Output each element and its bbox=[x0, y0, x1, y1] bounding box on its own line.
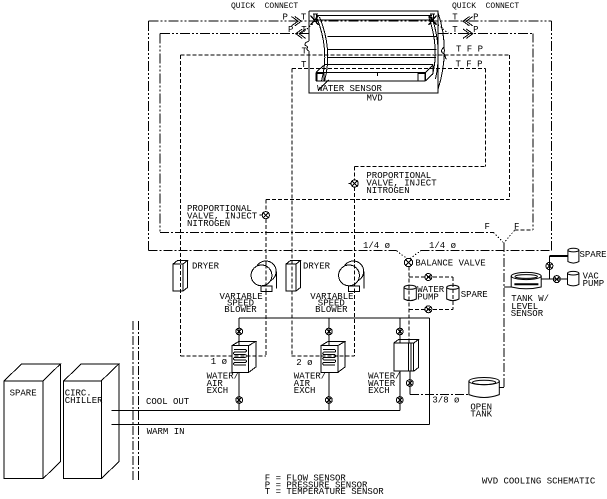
MVD right outer break squiggle bbox=[442, 47, 447, 59]
svg-text:NITROGEN: NITROGEN bbox=[366, 186, 409, 196]
label VARIABLE SPEED BLOWER 2 bbox=[310, 292, 353, 315]
wire left chilled duct pair bbox=[133, 321, 139, 482]
label WATER/WATER EXCH bbox=[368, 372, 400, 397]
svg-text:DRYER: DRYER bbox=[192, 262, 220, 272]
svg-text:TANK: TANK bbox=[470, 409, 492, 419]
wire air duct 2 dashed bbox=[292, 355, 355, 357]
svg-text:F: F bbox=[485, 222, 490, 232]
svg-text:NITROGEN: NITROGEN bbox=[187, 219, 230, 229]
blower 2 bbox=[339, 261, 364, 292]
svg-text:QUICK CONNECT: QUICK CONNECT bbox=[231, 2, 298, 11]
proportional valve V1 bbox=[260, 212, 270, 219]
wire pump loop right dashed bbox=[452, 277, 454, 309]
MVD top tube bbox=[313, 14, 435, 22]
MVD water sensor tray bbox=[316, 65, 433, 81]
wire spare branch horizontal (thick) bbox=[549, 255, 568, 257]
label VAC PUMP bbox=[583, 272, 605, 289]
svg-text:SPARE: SPARE bbox=[10, 389, 37, 399]
valve branch3 top bbox=[396, 328, 403, 335]
heat exchanger water/air 1 bbox=[232, 341, 256, 372]
svg-text:P: P bbox=[473, 25, 478, 35]
svg-text:1 ø: 1 ø bbox=[211, 357, 227, 367]
valve branch2 top bbox=[326, 328, 333, 335]
svg-text:CHILLER: CHILLER bbox=[65, 396, 103, 406]
label OPEN TANK bbox=[470, 402, 492, 419]
MVD left inner end arcs bbox=[317, 17, 328, 81]
wire COOL OUT pipe bbox=[112, 410, 400, 412]
svg-text:P: P bbox=[283, 13, 288, 23]
label VARIABLE SPEED BLOWER 1 bbox=[220, 292, 263, 315]
wire dotted diagonal line2-right into tube bbox=[436, 23, 449, 34]
valve spare branch bbox=[546, 263, 553, 270]
spare cylinder top right bbox=[568, 248, 579, 263]
proportional valve V2 bbox=[348, 180, 358, 187]
MVD right outer end arc bbox=[438, 13, 444, 89]
valve branch1 top bbox=[236, 328, 243, 335]
wire tank stub to funnel line bbox=[504, 286, 511, 288]
arrow chevron right line2 right bbox=[463, 29, 473, 38]
wire WARM IN pipe bbox=[112, 424, 430, 426]
svg-text:BLOWER: BLOWER bbox=[315, 305, 348, 315]
dryer 1 bbox=[173, 261, 188, 292]
svg-text:WVD COOLING SCHEMATIC: WVD COOLING SCHEMATIC bbox=[482, 476, 596, 486]
svg-text:T: T bbox=[452, 13, 458, 23]
wire long center line upper (to flow funnel) bbox=[160, 231, 494, 233]
water pump cylinder bbox=[404, 285, 416, 300]
label WATER/AIR EXCH 1 bbox=[207, 372, 239, 397]
wire warm water header (loop top) bbox=[239, 317, 429, 319]
MVD middle shell lines bbox=[327, 37, 437, 58]
wire funnel drop to open tank bbox=[503, 243, 505, 387]
legend F P T bbox=[265, 473, 384, 497]
balance valve bbox=[404, 258, 412, 266]
wire long center line lower (1/4 supply) bbox=[149, 250, 552, 252]
svg-text:1/4 ø: 1/4 ø bbox=[429, 241, 456, 251]
wire dashed header to proportional valve 2 bbox=[355, 166, 486, 168]
label WATER SENSOR with leader bbox=[317, 80, 382, 94]
wire spare branch vertical bbox=[548, 256, 550, 279]
wire riser valve V1 down through blower 1 bbox=[265, 219, 267, 356]
svg-text:EXCH: EXCH bbox=[368, 386, 390, 396]
svg-text:T: T bbox=[301, 13, 307, 23]
svg-text:SPARE: SPARE bbox=[580, 250, 607, 260]
svg-text:P: P bbox=[288, 25, 293, 35]
label TANK W/ LEVEL SENSOR bbox=[511, 294, 549, 319]
wire riser valve V2 down through blower 2 bbox=[354, 187, 356, 356]
wire V notch to balance valve bbox=[397, 251, 421, 259]
label WATER/AIR EXCH 2 bbox=[294, 372, 326, 397]
arrow chevron left line2 left bbox=[296, 29, 306, 38]
svg-text:P: P bbox=[473, 13, 478, 23]
valve vac pump bbox=[553, 276, 560, 283]
wire open tank inlet stub bbox=[499, 386, 504, 388]
valve branch3 bottom bbox=[396, 397, 403, 404]
wire riser valve V1 up bbox=[265, 199, 267, 211]
wire quick-connect line 1 top (P supply, phantom) bbox=[149, 21, 552, 251]
wire exchanger drain drop bbox=[409, 371, 411, 394]
svg-text:DRYER: DRYER bbox=[303, 262, 331, 272]
vac pump cylinder bbox=[568, 271, 579, 285]
spare chiller box bbox=[4, 364, 60, 479]
svg-text:T F P: T F P bbox=[456, 45, 483, 55]
svg-text:1/4 ø: 1/4 ø bbox=[363, 241, 390, 251]
dryer 2 bbox=[286, 261, 301, 292]
svg-text:BALANCE VALVE: BALANCE VALVE bbox=[415, 259, 485, 269]
wire quick-connect line 4 (T F P, dashed) bbox=[292, 69, 485, 357]
wire branch 2 vertical bbox=[328, 318, 330, 411]
svg-text:EXCH: EXCH bbox=[294, 386, 316, 396]
label PROPORTIONAL VALVE INJECT NITROGEN right bbox=[366, 171, 437, 196]
svg-text:T: T bbox=[452, 25, 458, 35]
blower 1 bbox=[251, 261, 276, 292]
svg-text:EXCH: EXCH bbox=[207, 386, 229, 396]
wire warm in riser right bbox=[429, 318, 431, 425]
wire tank to vac pump bbox=[541, 278, 567, 280]
wire air duct 1 dashed bbox=[180, 355, 266, 357]
spare pump cylinder bbox=[447, 285, 459, 300]
svg-text:SPARE: SPARE bbox=[461, 290, 488, 300]
heat exchanger water/air 2 bbox=[321, 341, 345, 372]
wire dotted diagonal line2-left into tube bbox=[302, 23, 314, 34]
MVD right tube-end crossing mark bbox=[429, 16, 437, 26]
valve branch2 bottom bbox=[326, 397, 333, 404]
label PROPORTIONAL VALVE INJECT NITROGEN left bbox=[187, 204, 258, 229]
wire branch 1 vertical bbox=[238, 318, 240, 411]
wire pump loop top dashed bbox=[409, 276, 453, 278]
valve branch1 bottom bbox=[236, 397, 243, 404]
wire balance valve drop (dashed) bbox=[408, 267, 410, 343]
wire flow funnel diagonals bbox=[494, 230, 515, 243]
MVD right inner end arcs bbox=[429, 17, 438, 79]
open tank bbox=[469, 378, 499, 398]
valve exchanger drain bbox=[406, 380, 413, 387]
wire pump loop bottom dashed bbox=[409, 308, 453, 310]
svg-text:SENSOR: SENSOR bbox=[511, 309, 544, 319]
svg-text:PUMP: PUMP bbox=[583, 279, 605, 289]
svg-text:2 ø: 2 ø bbox=[296, 358, 312, 368]
arrow chevron left line1 right bbox=[463, 17, 473, 26]
svg-text:BLOWER: BLOWER bbox=[224, 305, 257, 315]
wire quick-connect line 2 (P return, phantom) bbox=[160, 34, 533, 233]
wire dashed header to proportional valve 1 bbox=[266, 198, 510, 200]
wire quick-connect line 3 (T F P, dashed) bbox=[180, 55, 509, 356]
MVD vessel outer box bbox=[305, 11, 438, 93]
wire flow funnel right stub bbox=[515, 229, 534, 231]
svg-text:WARM IN: WARM IN bbox=[147, 427, 185, 437]
MVD left tube-end crossing mark bbox=[311, 16, 319, 26]
tank w/ level sensor bbox=[511, 272, 541, 288]
svg-text:T = TEMPERATURE SENSOR: T = TEMPERATURE SENSOR bbox=[265, 487, 384, 497]
valve pump loop top bbox=[425, 274, 432, 281]
svg-text:MVD: MVD bbox=[367, 94, 383, 104]
label WATER PUMP bbox=[417, 285, 445, 302]
svg-text:QUICK CONNECT: QUICK CONNECT bbox=[452, 2, 519, 11]
svg-text:3/8 ø: 3/8 ø bbox=[432, 395, 459, 405]
circ chiller box bbox=[64, 364, 119, 479]
svg-text:WATER SENSOR: WATER SENSOR bbox=[317, 84, 382, 94]
valve pump loop bottom bbox=[425, 306, 432, 313]
svg-text:PUMP: PUMP bbox=[417, 292, 439, 302]
wire branch 3 vertical bbox=[399, 318, 401, 411]
heat exchanger water/water bbox=[394, 340, 419, 372]
wire riser valve V2 up bbox=[354, 167, 356, 180]
label CIRC. CHILLER bbox=[65, 389, 103, 406]
svg-text:COOL OUT: COOL OUT bbox=[146, 397, 190, 407]
svg-text:T F P: T F P bbox=[456, 60, 483, 70]
arrow chevron right line1 left bbox=[292, 17, 302, 26]
svg-text:T: T bbox=[302, 46, 308, 56]
wire 3/8 line to open tank bbox=[410, 393, 469, 395]
svg-text:F: F bbox=[514, 222, 519, 232]
svg-text:T: T bbox=[301, 60, 307, 70]
